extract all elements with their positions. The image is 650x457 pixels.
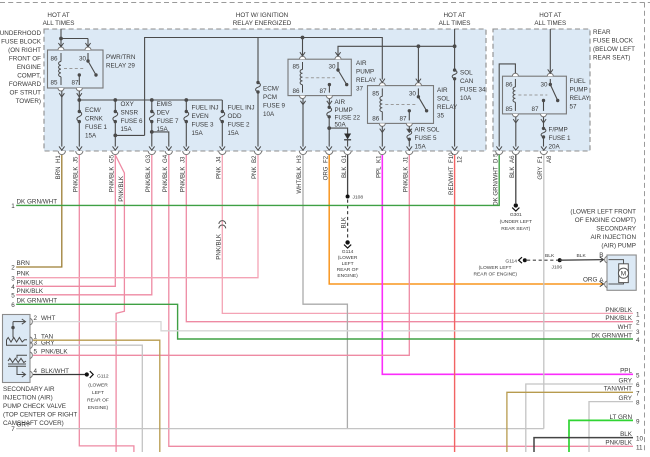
check valve internal: wiper line to pin 3: [7, 340, 28, 345]
svg-text:DK GRN/WHT: DK GRN/WHT: [492, 166, 499, 206]
svg-text:SNSR: SNSR: [121, 109, 139, 116]
svg-text:SOL: SOL: [437, 96, 450, 103]
svg-text:J4: J4: [216, 156, 223, 163]
svg-text:87: 87: [400, 116, 408, 123]
wire: PNK B2 to left item 3: [16, 155, 258, 278]
relay 37 dashed link: [306, 77, 336, 79]
svg-text:AIR SOL: AIR SOL: [415, 127, 440, 134]
fuse ECM/CRNK FUSE 1: [77, 100, 108, 147]
relay AIR SOL RELAY 35 box: [368, 86, 434, 124]
wire: relay 35 pin 30 drop: [417, 46, 419, 82]
wire: GRY F1 to line 7: [543, 155, 545, 429]
exit D 5 (DK GRN/WHT) from fuse block: [492, 146, 502, 205]
svg-text:3: 3: [11, 275, 15, 282]
svg-text:15A: 15A: [228, 130, 240, 137]
relay 57 switch: [544, 79, 558, 111]
svg-text:AIR: AIR: [335, 99, 346, 106]
svg-text:DEV: DEV: [157, 109, 171, 116]
svg-text:6: 6: [11, 302, 15, 309]
svg-text:BLK: BLK: [341, 217, 348, 229]
svg-text:PNK/BLK: PNK/BLK: [41, 349, 68, 356]
air pump pin brackets: [605, 256, 607, 287]
svg-text:10: 10: [636, 436, 644, 443]
svg-text:(LOWER LEFT FRONT: (LOWER LEFT FRONT: [570, 209, 636, 216]
svg-text:PNK/BLK: PNK/BLK: [605, 315, 632, 322]
exit G5 (PNK/BLK) from fuse block: [109, 146, 119, 192]
relay PWR/TRN RELAY 29 box: [48, 50, 104, 88]
svg-text:RELAY: RELAY: [356, 77, 377, 84]
svg-text:2: 2: [11, 265, 15, 272]
svg-text:OF ENGINE COMPT): OF ENGINE COMPT): [575, 217, 636, 224]
svg-text:(LOWER: (LOWER: [88, 383, 108, 389]
right items 1-11 labels: [591, 307, 643, 452]
svg-text:RELAY ENERGIZED: RELAY ENERGIZED: [233, 20, 292, 27]
svg-text:D 5: D 5: [492, 153, 499, 163]
svg-text:7: 7: [11, 426, 15, 433]
svg-text:15A: 15A: [192, 130, 204, 137]
svg-text:REAR SEAT): REAR SEAT): [501, 226, 530, 232]
exit J4 (PNK) from fuse block: [216, 146, 226, 179]
relay 29 pin bumps: [58, 47, 91, 91]
svg-text:ODD: ODD: [228, 113, 242, 120]
splice marker on J4 wire: [219, 221, 226, 229]
svg-text:ENGINE: ENGINE: [17, 64, 41, 71]
exit F2 (ORG) from fuse block: [322, 146, 332, 180]
exit J3 (PNK/BLK) from fuse block: [180, 146, 190, 192]
svg-text:COMPT,: COMPT,: [17, 73, 41, 80]
svg-text:57: 57: [570, 104, 578, 111]
svg-text:PNK/BLK: PNK/BLK: [403, 167, 410, 193]
svg-text:UNDERHOOD: UNDERHOOD: [0, 30, 41, 37]
svg-text:PUMP: PUMP: [570, 87, 588, 94]
svg-text:F2: F2: [322, 155, 329, 163]
air pump pin letters: [599, 252, 604, 284]
svg-text:B2: B2: [251, 155, 258, 163]
svg-text:1: 1: [11, 203, 15, 210]
node J106: [558, 258, 562, 262]
wire: relay 37 pin 86 to H3 exit: [302, 99, 304, 147]
svg-text:DK GRN/WHT: DK GRN/WHT: [591, 332, 632, 339]
svg-text:87: 87: [72, 80, 80, 87]
ground G301: [514, 203, 518, 207]
svg-text:PNK/BLK: PNK/BLK: [605, 307, 632, 314]
svg-text:85: 85: [506, 106, 514, 113]
wire: ORG F2 to air pump pin A: [329, 155, 603, 284]
svg-text:WHT/BLK: WHT/BLK: [296, 167, 303, 194]
svg-text:PUMP: PUMP: [335, 107, 353, 114]
svg-text:ECM/: ECM/: [263, 86, 279, 93]
relay 57 entry arrow: [548, 69, 553, 73]
svg-text:A8: A8: [546, 155, 553, 163]
svg-text:87: 87: [320, 88, 328, 95]
fuse OXY SNSR FUSE 6: [113, 100, 143, 147]
svg-text:11: 11: [636, 444, 643, 451]
svg-text:FUSE BLOCK: FUSE BLOCK: [1, 39, 42, 46]
wire: PNK/BLK G3 to left item 5: [16, 155, 152, 295]
svg-text:J5: J5: [73, 156, 80, 163]
svg-text:EMIS: EMIS: [157, 101, 172, 108]
svg-text:REAR OF ENGINE): REAR OF ENGINE): [474, 272, 518, 278]
svg-text:J3: J3: [180, 156, 187, 163]
svg-text:B: B: [599, 252, 603, 259]
relay 37 switch: [329, 62, 346, 93]
underhood fuse block box: [44, 29, 486, 151]
svg-text:AIR: AIR: [437, 87, 448, 94]
svg-text:G3: G3: [145, 154, 152, 163]
svg-text:(LOWER LEFT: (LOWER LEFT: [479, 265, 512, 271]
exit J5 (PNK/BLK) from fuse block: [73, 146, 83, 192]
wire: fuse 22 output branch to diode: [329, 128, 347, 133]
svg-text:ORG: ORG: [322, 166, 329, 180]
svg-text:F10: F10: [448, 152, 455, 163]
svg-text:CAMSHAFT COVER): CAMSHAFT COVER): [3, 420, 64, 427]
check valve internal: coil to pin 4: [17, 366, 26, 374]
relay 57 dashed link: [518, 94, 547, 96]
svg-text:PNK: PNK: [17, 271, 31, 278]
relay 35 coil: [380, 88, 382, 120]
wire: feed from hot-at-all-times to relay 29: [61, 29, 88, 47]
svg-text:F1: F1: [537, 155, 544, 163]
exit A6 (BLK) from fuse block: [509, 146, 519, 178]
svg-text:PCM: PCM: [263, 94, 277, 101]
exit B2 (PNK) from fuse block: [251, 146, 261, 179]
svg-text:FUSE 22: FUSE 22: [335, 115, 361, 122]
wire: fuse 7 output jog to G4 exit: [152, 132, 169, 147]
check valve internal: solenoid coil: [17, 355, 27, 358]
svg-text:REAR: REAR: [593, 29, 611, 36]
wire: relay 57 pin 86 loop to D5 exit: [499, 64, 515, 147]
svg-text:K1: K1: [376, 155, 383, 163]
svg-text:ALL TIMES: ALL TIMES: [43, 20, 75, 27]
svg-text:5: 5: [11, 292, 15, 299]
wire: LT GRN right item 9 from bottom: [569, 420, 633, 452]
relay 29 dashed link: [64, 68, 84, 70]
svg-text:OF STRUT: OF STRUT: [10, 90, 42, 97]
label: hot w/ ignition relay energized: [233, 12, 292, 27]
check valve internal: resistor: [7, 338, 28, 343]
svg-text:HOT AT: HOT AT: [47, 12, 69, 19]
svg-text:5: 5: [636, 372, 640, 379]
svg-text:FUSE 5: FUSE 5: [415, 135, 438, 142]
wire: TAN/WHT right item 7 from bottom: [507, 392, 633, 452]
page border top: [0, 2, 650, 4]
svg-text:PNK/BLK: PNK/BLK: [118, 176, 125, 202]
svg-text:SECONDARY AIR: SECONDARY AIR: [3, 386, 55, 393]
svg-text:AIR INJECTION: AIR INJECTION: [591, 234, 637, 241]
check valve internal: pin 2 line and junction: [13, 319, 26, 338]
air pump location label: [570, 209, 636, 250]
wire: PNK/BLK J1 to check valve pin 5: [33, 155, 409, 355]
svg-text:PPL: PPL: [376, 166, 383, 178]
wire: BLK right item 10 from bottom: [534, 438, 633, 452]
wire: WHT pin 2 to right item 3: [33, 322, 633, 331]
wire: GRY left item 7: [16, 428, 544, 430]
ground G114 (left): [345, 240, 349, 244]
svg-text:ECM/: ECM/: [85, 107, 101, 114]
relay 35 pin labels: [372, 91, 416, 123]
exit H3 (WHT/BLK) from fuse block: [296, 146, 306, 193]
svg-text:1: 1: [636, 311, 640, 318]
wire: bus1 (relay energized): [145, 38, 383, 136]
svg-text:86: 86: [506, 82, 514, 89]
svg-text:OXY: OXY: [121, 101, 135, 108]
svg-text:10A: 10A: [263, 111, 275, 118]
svg-text:30: 30: [329, 64, 337, 71]
svg-text:4: 4: [11, 284, 15, 291]
svg-text:LEFT: LEFT: [342, 261, 354, 267]
svg-text:PNK/BLK: PNK/BLK: [180, 167, 187, 193]
wire: PPL K1 to right item 5: [382, 155, 633, 374]
svg-text:RELAY 29: RELAY 29: [106, 63, 135, 70]
exit G4 (PNK/BLK) from fuse block: [162, 146, 172, 192]
wire: TAN pin 1 to bottom exit: [33, 340, 160, 452]
svg-text:G301: G301: [510, 212, 522, 218]
relay 35 switch: [409, 88, 426, 120]
svg-text:FUEL INJ: FUEL INJ: [192, 105, 219, 112]
svg-text:PUMP CHECK VALVE: PUMP CHECK VALVE: [3, 403, 66, 410]
svg-text:J108: J108: [353, 195, 364, 201]
svg-text:FUEL INJ: FUEL INJ: [228, 105, 255, 112]
svg-text:85: 85: [372, 91, 380, 98]
relay 57 pin labels: [506, 82, 549, 114]
relay AIR PUMP RELAY 37 box: [288, 59, 351, 95]
svg-text:PNK/BLK: PNK/BLK: [73, 167, 80, 193]
svg-text:TOWER): TOWER): [16, 98, 41, 105]
wire: BLK G1 to J108: [347, 155, 349, 197]
svg-text:9: 9: [636, 418, 640, 425]
svg-text:15A: 15A: [415, 144, 427, 151]
svg-text:FUSE 2: FUSE 2: [228, 122, 251, 129]
relay 29 coil: [59, 53, 61, 85]
diode (air pump relay): [344, 134, 351, 140]
svg-text:HOT AT: HOT AT: [444, 12, 466, 19]
relay 35 pin bumps: [379, 83, 421, 127]
svg-text:BLK: BLK: [577, 253, 587, 259]
exit J1 (PNK/BLK) from fuse block: [403, 146, 413, 192]
relay 57 bottom arrows: [513, 119, 546, 123]
rear fuse block box: [493, 29, 590, 151]
svg-text:G4: G4: [162, 154, 169, 163]
svg-text:PNK/BLK: PNK/BLK: [17, 288, 44, 295]
svg-text:F/PMP: F/PMP: [549, 127, 568, 134]
fuse EMIS DEV FUSE 7: [149, 100, 179, 147]
svg-text:EVEN: EVEN: [192, 113, 210, 120]
ground G114 (right, at air pump): [474, 258, 518, 277]
svg-text:G114: G114: [505, 258, 517, 264]
wire: GRY pin 3 to bottom exit: [33, 345, 142, 452]
exit G1 (BLK) from fuse block: [341, 146, 351, 178]
wire: relay 57 pin 85 to A6 exit: [515, 117, 517, 147]
wire: GRY right item 6 from bottom: [526, 384, 633, 452]
svg-text:PNK/BLK: PNK/BLK: [145, 167, 152, 193]
svg-text:15A: 15A: [85, 133, 97, 140]
svg-text:2: 2: [636, 320, 640, 327]
svg-text:CRNK: CRNK: [85, 116, 104, 123]
svg-text:FUSE 6: FUSE 6: [121, 118, 144, 125]
svg-text:10A: 10A: [460, 95, 472, 102]
svg-text:A6: A6: [509, 155, 516, 163]
air pump pin arrows: [600, 257, 604, 287]
relay 35 entry arrows: [380, 79, 421, 83]
svg-text:(ON RIGHT: (ON RIGHT: [8, 47, 41, 54]
svg-text:FUSE 7: FUSE 7: [157, 118, 180, 125]
svg-text:G5: G5: [109, 154, 116, 163]
svg-text:37: 37: [356, 86, 364, 93]
svg-text:RELAY: RELAY: [570, 95, 591, 102]
wire: BRN H1 to left item 2: [16, 155, 62, 267]
fuse ECM/PCM FUSE 9: [256, 38, 286, 147]
relay FUEL PUMP RELAY 57 box: [503, 76, 567, 114]
wire: DK GRN/WHT D5 to left item 1: [16, 155, 499, 205]
relay 29 pin labels: [51, 56, 87, 87]
wire: BLK dashed G114 to J106: [527, 259, 558, 261]
svg-text:85: 85: [51, 80, 59, 87]
svg-text:(BELOW LEFT: (BELOW LEFT: [593, 46, 635, 53]
svg-text:PNK/BLK: PNK/BLK: [162, 167, 169, 193]
exit F1 (GRY) from fuse block: [537, 146, 553, 179]
fuse AIR SOL FUSE 5: [407, 127, 440, 151]
check valve box (secondary air injection pump check valve): [3, 315, 31, 383]
check valve location label: [3, 386, 77, 427]
relay 35 dashed link: [385, 104, 415, 106]
relay 57 pin bumps: [512, 73, 553, 117]
svg-text:CAN: CAN: [460, 78, 474, 85]
svg-text:FUSE 1: FUSE 1: [549, 135, 572, 142]
svg-text:HOT AT: HOT AT: [539, 12, 561, 19]
relay 29 bottom exit arrows: [59, 93, 82, 97]
svg-text:ORG: ORG: [583, 277, 597, 284]
svg-text:G112: G112: [97, 374, 109, 380]
svg-text:BLK: BLK: [545, 253, 555, 259]
svg-text:PNK/BLK: PNK/BLK: [216, 234, 223, 260]
label: hot at all times (right): [534, 12, 566, 27]
svg-text:15A: 15A: [121, 126, 133, 133]
svg-text:FUSE 1: FUSE 1: [85, 124, 108, 131]
fuse F/PMP FUSE 1: [541, 127, 571, 151]
svg-text:REAR OF: REAR OF: [87, 398, 109, 404]
wire: relay 35 pin 87 to fuse 5: [408, 126, 410, 129]
wire: relay 57 pin 87 to F/PMP fuse: [543, 117, 545, 128]
wire: DK GRN/WHT left item 6 to right item 4: [16, 304, 633, 339]
wire: PNK/BLK G5 left branch to left item 4: [16, 155, 115, 286]
svg-text:35: 35: [437, 113, 445, 120]
wire: PNK/BLK G5 right branch to bottom exit: [115, 155, 124, 452]
svg-text:PPL: PPL: [620, 368, 632, 375]
svg-text:PNK: PNK: [216, 167, 223, 180]
svg-text:H3: H3: [296, 155, 303, 163]
svg-text:87: 87: [532, 106, 540, 113]
svg-text:SECONDARY: SECONDARY: [596, 226, 637, 233]
svg-text:PNK/BLK: PNK/BLK: [17, 279, 44, 286]
svg-text:(TOP CENTER OF RIGHT: (TOP CENTER OF RIGHT: [3, 412, 77, 419]
node: feed split dot: [59, 37, 63, 41]
exit F10 (RED/WHT) from fuse block: [448, 146, 464, 195]
svg-text:DK GRN/WHT: DK GRN/WHT: [17, 198, 58, 205]
wire: WHT/BLK H3 jog down: [303, 155, 347, 429]
svg-text:7: 7: [636, 390, 640, 397]
air pump box: [607, 255, 636, 290]
exit H1 (BRN) from fuse block: [55, 146, 65, 179]
svg-text:30: 30: [541, 82, 549, 89]
fuse FUEL INJ ODD FUSE 2: [220, 100, 255, 147]
svg-text:G1: G1: [341, 154, 348, 163]
label: hot at all times (left): [43, 12, 75, 27]
svg-text:FUSE 9: FUSE 9: [263, 103, 286, 110]
wire: BLK/WHT pin 4 to G112: [33, 374, 85, 376]
exit K1 (PPL) from fuse block: [376, 146, 386, 178]
page border right: [644, 3, 646, 453]
svg-text:FUSE 3: FUSE 3: [192, 122, 215, 129]
wire: relay 29 pin 85 down to H1 exit: [61, 91, 63, 147]
label: underhood fuse block location: [0, 30, 42, 105]
svg-text:DK GRN/WHT: DK GRN/WHT: [17, 297, 58, 304]
svg-text:REAR OF: REAR OF: [337, 267, 359, 273]
svg-text:INJECTION (AIR): INJECTION (AIR): [3, 395, 53, 402]
wire: relay 35 pin 86 to K1 exit: [381, 126, 383, 146]
svg-text:G114: G114: [342, 249, 354, 255]
relay 37 bottom arrows: [300, 101, 332, 105]
svg-text:(UNDER LEFT: (UNDER LEFT: [500, 219, 532, 225]
wire: hot at all times drop to relay 57 pin 30: [549, 29, 551, 73]
svg-text:BRN: BRN: [17, 260, 31, 267]
svg-text:86: 86: [372, 116, 380, 123]
svg-text:ENGINE): ENGINE): [337, 273, 358, 279]
relay 29 switch: [79, 53, 96, 85]
svg-text:4: 4: [636, 337, 640, 344]
node J108: [346, 195, 350, 199]
relay 37 pin labels: [293, 64, 337, 96]
air pump motor: [619, 264, 629, 283]
air pump internal leads: [609, 260, 624, 284]
svg-text:12: 12: [457, 156, 464, 163]
svg-text:86: 86: [51, 56, 59, 63]
svg-text:PNK/BLK: PNK/BLK: [109, 167, 116, 193]
svg-text:PWR/TRN: PWR/TRN: [106, 54, 136, 61]
ground G112: [85, 372, 89, 376]
wire: relay 29 pin 87 down to fuse bus: [78, 91, 80, 100]
svg-text:30: 30: [409, 91, 417, 98]
wire: RED/WHT F10 to bottom exit: [454, 155, 456, 452]
svg-text:3: 3: [636, 329, 640, 336]
svg-text:ALL TIMES: ALL TIMES: [439, 20, 471, 27]
node: fuse bus dots: [77, 98, 81, 102]
wire: bus2 hot at all times: [338, 29, 455, 56]
svg-text:RED/WHT: RED/WHT: [448, 166, 455, 195]
exit G3 (PNK/BLK) from fuse block: [145, 146, 155, 192]
svg-text:8: 8: [636, 400, 640, 407]
wire: PNK/BLK J3 to right item 2: [186, 155, 633, 322]
wire: fuse bus: [79, 99, 222, 101]
svg-text:REAR SEAT): REAR SEAT): [593, 55, 630, 62]
svg-text:BLK: BLK: [509, 167, 516, 179]
svg-text:PNK: PNK: [251, 167, 258, 180]
wire: BLK dashed J108 to G114: [347, 200, 349, 241]
svg-text:ENGINE): ENGINE): [88, 405, 109, 411]
relay 35 bottom arrows: [380, 129, 412, 133]
svg-text:6: 6: [636, 382, 640, 389]
svg-text:5: 5: [34, 349, 38, 356]
svg-text:85: 85: [293, 64, 301, 71]
wire: BLK J106 to air pump pin B: [560, 259, 604, 262]
svg-text:BLK: BLK: [341, 167, 348, 179]
check valve pin numbers and colors: [34, 315, 70, 375]
wire: PNK J4 to right item 1: [222, 155, 633, 313]
svg-text:FUSE BLOCK: FUSE BLOCK: [593, 38, 634, 45]
svg-text:FUSE 34: FUSE 34: [460, 87, 486, 94]
label: rear fuse block location: [593, 29, 635, 62]
svg-text:(LOWER: (LOWER: [338, 255, 358, 261]
check valve pin brackets: [30, 318, 32, 378]
